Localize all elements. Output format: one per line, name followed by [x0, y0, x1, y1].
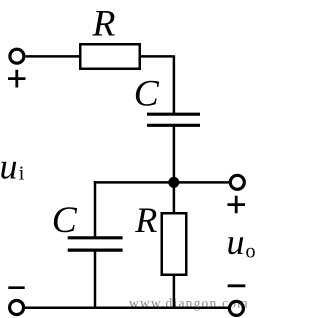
terminal top-left: [10, 49, 24, 63]
wire resistor to right branch: [139, 55, 173, 58]
svg-text:www.diangon.com: www.diangon.com: [129, 296, 249, 311]
terminal bottom-right: [229, 301, 243, 315]
svg-text:R: R: [92, 4, 116, 45]
wire down to capacitor C1: [173, 55, 176, 114]
svg-text:o: o: [246, 241, 256, 263]
svg-text:u: u: [227, 222, 245, 262]
main horizontal wire: [94, 181, 229, 184]
wire left branch down: [94, 181, 97, 236]
plus sign (input +): [8, 70, 26, 88]
capacitor C1 (series) bottom plate: [147, 124, 200, 127]
capacitor C2 (shunt) top plate: [68, 236, 123, 239]
minus sign (output -): [228, 284, 246, 287]
svg-text:C: C: [134, 74, 160, 115]
svg-text:u: u: [0, 147, 18, 187]
bottom wire: [25, 306, 229, 309]
terminal right (output +): [230, 175, 244, 189]
wire left branch to bottom: [94, 250, 97, 308]
svg-text:i: i: [19, 163, 25, 185]
terminal bottom-left: [10, 301, 24, 315]
minus sign (input -): [8, 286, 24, 289]
capacitor C1 (series) top plate: [147, 113, 200, 116]
svg-text:C: C: [52, 200, 78, 241]
wire capacitor to node: [173, 125, 176, 183]
plus sign (output +): [227, 196, 245, 213]
capacitor C2 (shunt) bottom plate: [68, 249, 123, 252]
wire resistor R2 to bottom: [173, 275, 176, 308]
resistor R1 (series, horizontal): [80, 44, 140, 69]
wire node to resistor R2: [173, 182, 176, 213]
wire top-left: [26, 55, 80, 58]
resistor R2 (shunt, vertical): [162, 213, 187, 275]
node (junction dot): [168, 177, 179, 188]
svg-text:R: R: [134, 200, 157, 240]
